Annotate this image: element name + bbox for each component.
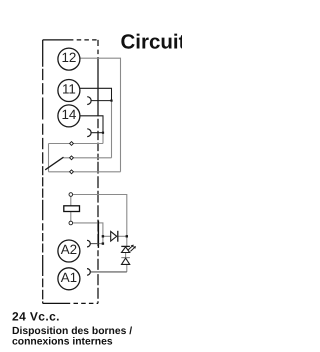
diode D1 (coil suppression) [111,231,117,241]
wire contact left vertical [48,144,50,172]
socket arc terminal 11 [87,97,91,105]
wire contact line NC (bottom) [49,171,121,173]
wire vertical from 14 corner to top contact line [102,133,104,144]
wire rail diode junction to LED [126,236,128,246]
socket arc terminal 14 [87,129,91,137]
svg-text:Disposition des bornes /: Disposition des bornes / [12,326,132,337]
svg-text:Circuit: Circuit [121,31,183,54]
node circle coil top [69,193,73,197]
terminal 12 [58,48,80,70]
wire terminal 14 (black) [80,116,103,133]
junction dot resistor-A2 [102,242,104,244]
wire diode cathode to rail [118,235,127,237]
contact marker diamond top [70,142,74,146]
coil K [64,206,80,212]
wire socket arc 14 stub [91,132,103,134]
wire A2 stub [91,243,99,245]
svg-text:connexions internes: connexions internes [12,337,113,348]
wire LED to diode2 [125,253,127,258]
terminal 11 [58,80,80,102]
wire terminal 11 (black) [79,88,111,100]
terminal A2 [58,240,80,262]
wire A1 line [91,271,127,273]
LED indicator [121,245,130,247]
wire contact line common (middle) [64,157,112,159]
wire coil bottom node to resistor [71,222,99,224]
dashed enclosure box top edge [43,39,74,41]
svg-text:11: 11 [62,82,76,97]
junction dot node 14-arc [102,132,104,134]
junction dot resistor-diode [102,235,104,237]
dashed enclosure box left edge [42,40,44,304]
junction dot node 11-arc [110,100,112,102]
terminal 14 [58,105,80,127]
socket arc terminal A1 [87,269,90,276]
dashed enclosure box right edge [97,40,99,304]
junction dot rail-diode [126,235,128,237]
wire resistor to diode anode [103,235,111,237]
dashed enclosure box bottom edge [43,302,70,304]
contact lever (movable blade) [45,157,63,170]
wire vertical from 11 corner to middle contact line [111,101,113,158]
svg-text:A1: A1 [61,270,77,285]
diode D2 (reverse protection) [121,257,130,259]
resistor R (LED series) [98,223,103,244]
wire coil top node to right rail [71,195,127,237]
wire contact line NO (top) [49,143,104,145]
svg-text:24 Vc.c.: 24 Vc.c. [12,309,60,323]
wire diode2 to A1 line [126,264,127,272]
contact marker diamond middle [70,156,74,160]
wire node to coil [70,195,72,224]
socket arc terminal A2 [87,240,90,247]
wire socket arc 11 stub [91,100,112,102]
svg-text:14: 14 [61,107,76,122]
wire terminal 12 to bottom contact [80,58,121,172]
svg-text:A2: A2 [61,242,77,257]
terminal A1 [58,268,80,290]
svg-text:12: 12 [61,50,76,65]
contact marker diamond bottom [70,170,74,174]
node circle coil bottom [69,221,73,225]
